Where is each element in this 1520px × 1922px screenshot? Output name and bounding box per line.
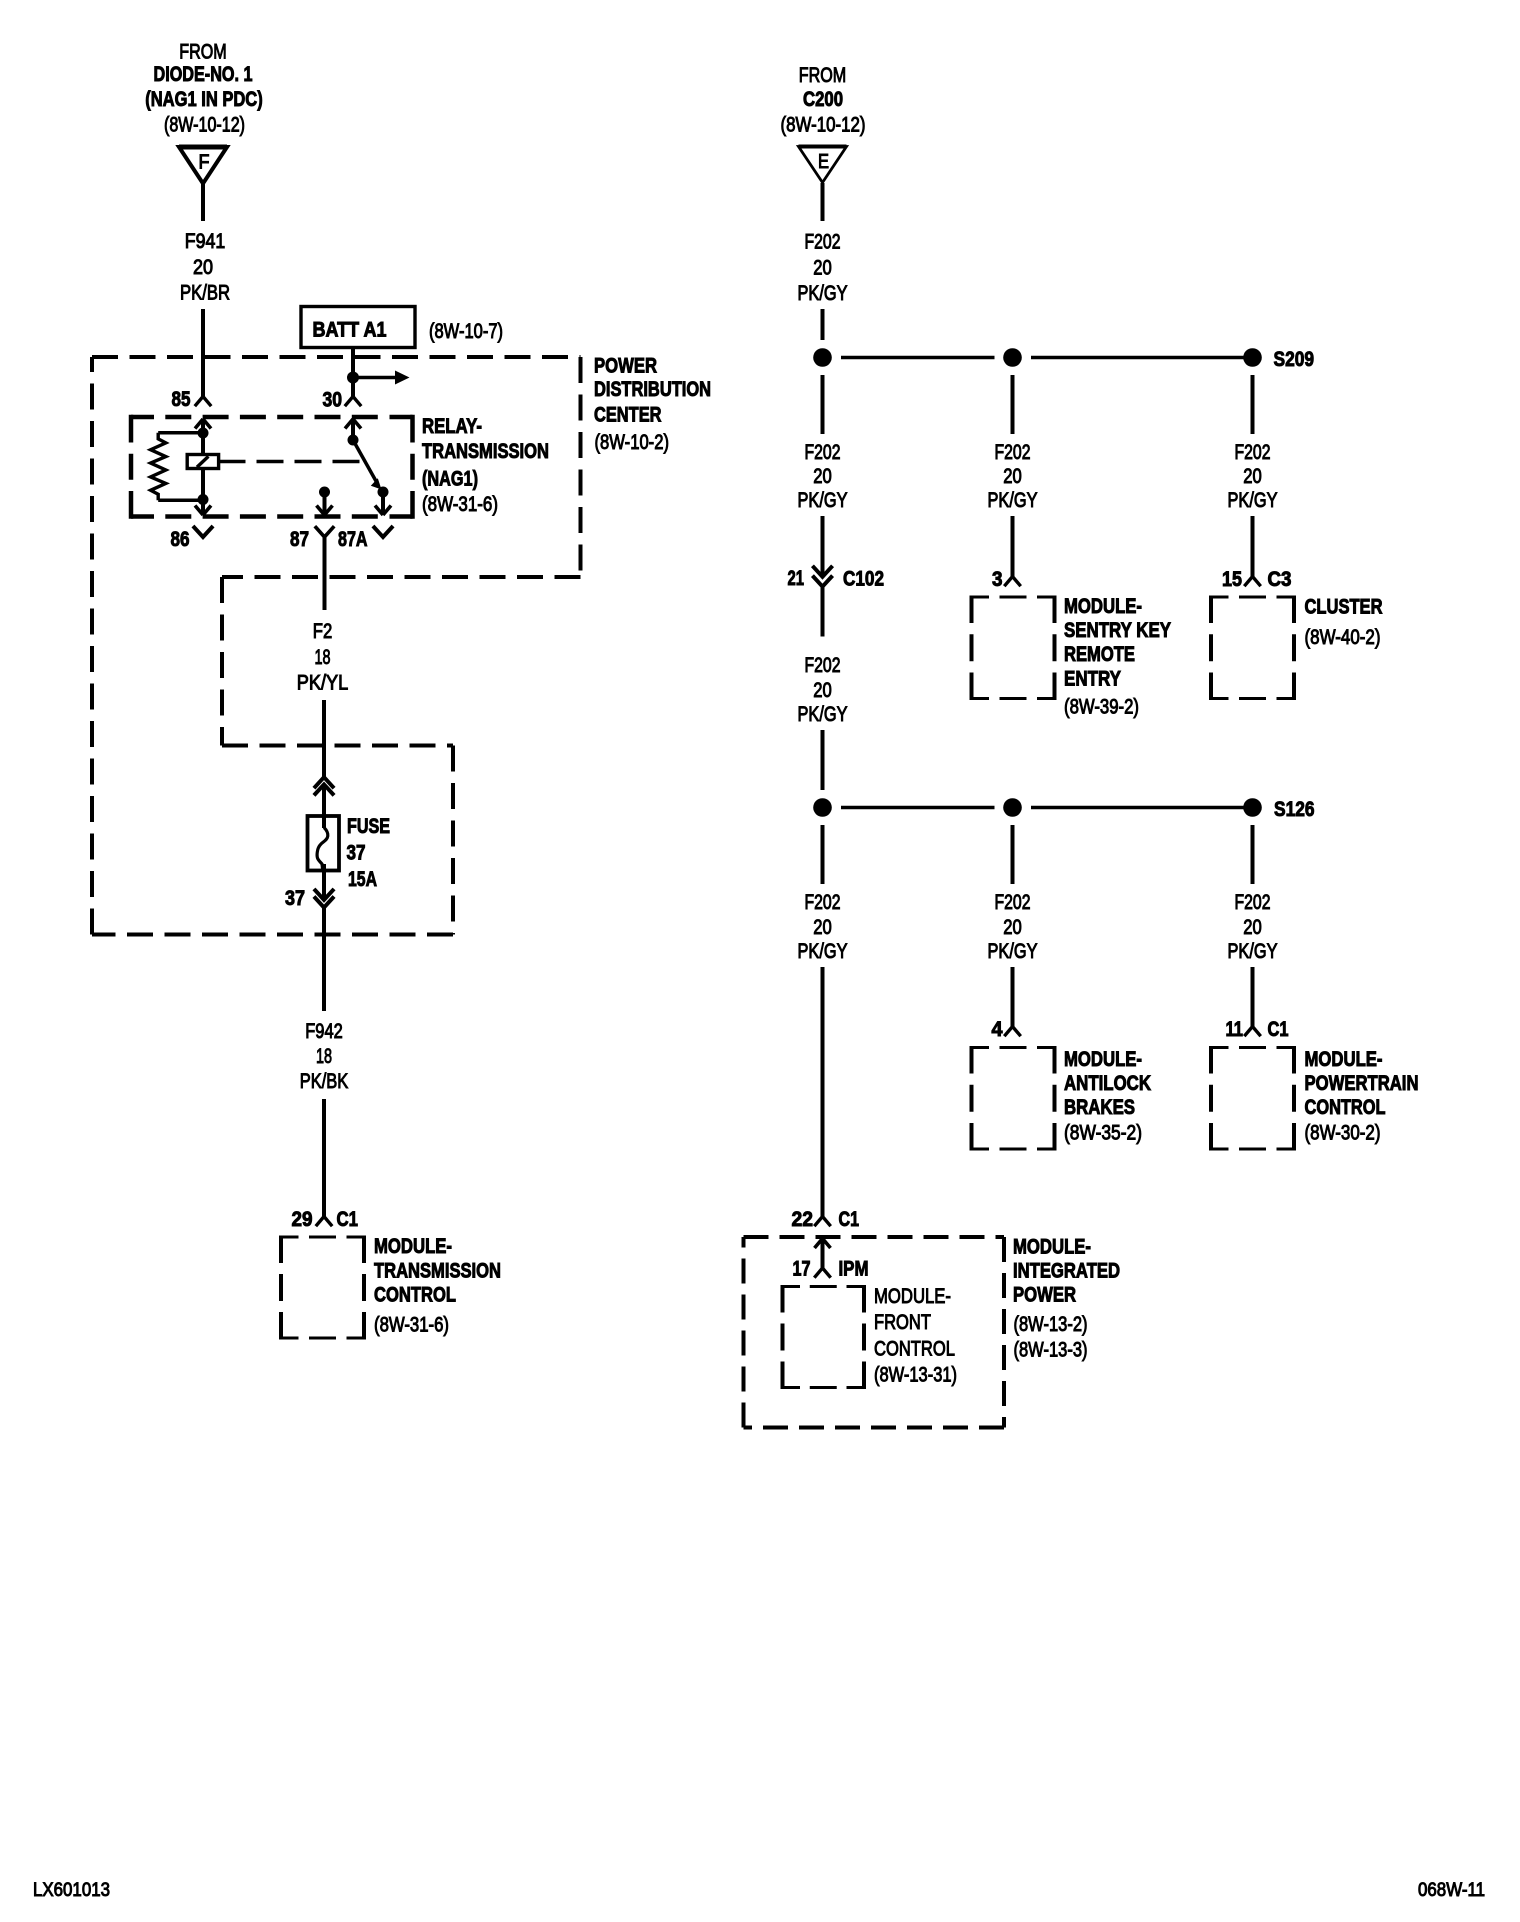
svg-text:22: 22 [792,1208,814,1231]
svg-text:20: 20 [813,257,832,280]
svg-text:CONTROL: CONTROL [874,1337,955,1360]
svg-text:(8W-13-3): (8W-13-3) [1014,1339,1088,1362]
svg-text:CONTROL: CONTROL [374,1284,456,1307]
pin number 30 [323,389,343,412]
relay common terminal arrow (pin 30 inside) [345,419,361,440]
svg-text:ENTRY: ENTRY [1064,668,1121,691]
pin number 11 [1226,1018,1244,1041]
svg-text:F202: F202 [805,891,841,914]
pin number 86 [171,528,190,551]
svg-text:MODULE-: MODULE- [1064,1048,1142,1071]
svg-text:068W-11: 068W-11 [1418,1880,1485,1901]
svg-text:87A: 87A [338,528,368,551]
svg-text:85: 85 [172,388,191,411]
svg-text:F2: F2 [313,620,333,643]
wire F2 from relay pin 87 down [322,537,327,778]
svg-text:CENTER: CENTER [594,404,662,427]
svg-text:MODULE-: MODULE- [1013,1236,1091,1259]
svg-text:FUSE: FUSE [347,815,390,838]
relay coil top junction dot [198,428,209,439]
IPM internal feed arrow [815,1239,831,1269]
connector name C102 [843,568,884,591]
relay coil bottom junction dot [198,494,209,505]
wire label F202 20 PK/GY (C102 to S126) [798,654,848,726]
svg-text:RELAY-: RELAY- [422,415,482,438]
svg-text:PK/GY: PK/GY [1228,940,1278,963]
svg-text:15A: 15A [348,868,377,891]
svg-text:REMOTE: REMOTE [1064,643,1135,666]
label: MODULE-INTEGRATED POWER (8W-13-2) (8W-13-3) [1013,1236,1120,1362]
svg-text:MODULE-: MODULE- [874,1285,951,1308]
sheet number LX601013 [33,1880,110,1901]
wire F202 from S126 to antilock brakes module [1011,825,1015,1027]
svg-text:(8W-13-2): (8W-13-2) [1014,1313,1088,1336]
in-PDC connector double chevron (into fuse block) [315,777,332,794]
module box: MODULE-FRONT CONTROL [783,1285,865,1389]
splice S209 bus wire [841,356,1244,360]
svg-text:F202: F202 [1235,441,1271,464]
svg-text:POWER: POWER [1013,1284,1076,1307]
svg-text:C3: C3 [1268,568,1292,591]
svg-text:20: 20 [813,465,832,488]
svg-text:17: 17 [793,1258,811,1281]
splice dot S126-1 [813,798,832,817]
svg-text:DISTRIBUTION: DISTRIBUTION [594,378,711,401]
svg-text:CONTROL: CONTROL [1305,1096,1386,1119]
svg-text:C102: C102 [843,568,884,591]
svg-text:S126: S126 [1274,798,1315,821]
relay contact 87 dot [319,487,330,498]
node label: FROM DIODE-NO. 1 (NAG1 IN PDC) (8W-10-12) [145,41,263,137]
relay terminal arrow (pin 87 inside) [317,492,333,515]
connector fork pin 4 (antilock brakes) [1004,1027,1020,1037]
off-page connector triangle F (from diode no. 1) [179,147,227,184]
svg-text:37: 37 [285,887,305,910]
svg-text:TRANSMISSION: TRANSMISSION [374,1260,501,1283]
pin 87A connector chevron [374,528,391,538]
svg-text:(8W-39-2): (8W-39-2) [1064,696,1139,719]
sheet number 068W-11 [1418,1880,1485,1901]
connector C102 double chevron pin 21 [814,567,831,586]
connector fork pin 22 C1 (IPM) [814,1217,830,1227]
svg-text:(8W-30-2): (8W-30-2) [1305,1122,1381,1145]
relay coil terminal arrow (pin 85 inside) [195,419,211,433]
pin number 4 [992,1018,1003,1041]
svg-text:IPM: IPM [839,1258,869,1281]
connector name C1 (IPM) [839,1208,860,1231]
connector fork pin 29 C1 [316,1217,332,1227]
svg-text:29: 29 [292,1208,313,1231]
module box: MODULE-TRANSMISSION CONTROL [281,1236,364,1340]
pin 37 connector double chevron (out of fuse block) [315,890,332,907]
wire from BATT A1 box to relay pin 30 [351,348,355,397]
relay suppression resistor [151,433,203,501]
connector fork pin 17 IPM (front control module) [814,1268,830,1278]
svg-text:PK/GY: PK/GY [798,489,848,512]
label: CLUSTER (8W-40-2) [1305,596,1383,650]
relay armature linkage (dashed) [219,460,364,464]
wire F202 from S209 to sentry key module [1011,375,1015,577]
splice dot S209-1 [813,348,832,367]
svg-text:MODULE-: MODULE- [1064,595,1142,618]
relay switch blade to 87A [353,440,382,490]
fuse 37 15A [308,785,340,900]
svg-text:18: 18 [316,1045,332,1068]
svg-text:(8W-31-6): (8W-31-6) [422,493,498,516]
svg-text:PK/BR: PK/BR [180,282,230,305]
wire label F942 18 PK/BK [300,1020,349,1093]
svg-text:F202: F202 [805,654,841,677]
wire F941 from triangle F to relay pin 85 [201,184,205,397]
module box: CLUSTER [1211,596,1294,701]
svg-text:PK/BK: PK/BK [300,1070,349,1093]
svg-text:F202: F202 [1235,891,1271,914]
svg-text:3: 3 [992,568,1003,591]
svg-text:PK/GY: PK/GY [798,703,848,726]
svg-text:86: 86 [171,528,190,551]
svg-text:(8W-10-12): (8W-10-12) [164,114,245,137]
pin number 15 [1222,568,1242,591]
label: MODULE-POWERTRAIN CONTROL (8W-30-2) [1305,1048,1419,1145]
svg-text:F941: F941 [185,230,226,253]
label: MODULE-ANTILOCK BRAKES (8W-35-2) [1064,1048,1151,1145]
connector name C1 (powertrain) [1268,1018,1289,1041]
pin number 87A [338,528,368,551]
wire F202 from S126 to powertrain control module [1251,825,1255,1027]
pin number 87 [290,528,309,551]
svg-text:20: 20 [1243,916,1262,939]
svg-text:PK/GY: PK/GY [798,940,848,963]
junction dot on BATT A1 feed with branch arrow [347,371,410,385]
pin number 22 [792,1208,814,1231]
connector name IPM [839,1258,869,1281]
svg-text:15: 15 [1222,568,1242,591]
relay coil (rect with slash) [187,433,218,500]
svg-text:BRAKES: BRAKES [1064,1096,1135,1119]
wire F202 from S126 to integrated power module [821,825,825,1217]
PDC boundary: POWER DISTRIBUTION CENTER dashed outline [92,357,581,935]
svg-text:21: 21 [788,567,805,590]
svg-text:F942: F942 [305,1020,343,1043]
svg-text:PK/GY: PK/GY [798,282,848,305]
wire label F202 20 PK/GY (S209 to C102) [798,441,848,512]
svg-text:87: 87 [290,528,309,551]
wire label F202 20 PK/GY (to antilock brakes) [988,891,1038,963]
svg-text:20: 20 [1003,916,1022,939]
svg-text:CLUSTER: CLUSTER [1305,596,1383,619]
svg-text:(8W-31-6): (8W-31-6) [374,1314,449,1337]
svg-text:20: 20 [813,916,832,939]
svg-text:PK/GY: PK/GY [988,489,1038,512]
svg-text:20: 20 [193,256,213,279]
svg-text:20: 20 [1003,465,1022,488]
module box: MODULE-INTEGRATED POWER [744,1237,1005,1428]
wire label F2 18 PK/YL [297,620,349,695]
svg-text:20: 20 [1243,465,1262,488]
svg-text:FRONT: FRONT [874,1311,931,1334]
svg-text:DIODE-NO. 1: DIODE-NO. 1 [154,63,253,86]
wire F202 from triangle E to splice S209 [821,183,825,340]
relay K1 RELAY-TRANSMISSION (NAG1) dashed outline [131,415,413,519]
module box: MODULE-ANTILOCK BRAKES [972,1046,1055,1151]
svg-text:LX601013: LX601013 [33,1880,110,1901]
splice dot S126-3 [1243,798,1262,817]
wire F202 from S209 to C102 [821,375,825,578]
pin 86 connector chevron [194,528,211,538]
splice S126 bus wire [841,806,1244,810]
wire label F202 20 PK/GY (to cluster) [1228,441,1278,512]
off-page connector triangle E (from C200) [799,147,847,183]
svg-text:POWER: POWER [594,355,657,378]
svg-text:F202: F202 [805,441,841,464]
wire label F202 20 PK/GY (to powertrain control) [1228,891,1278,963]
svg-text:(8W-10-2): (8W-10-2) [595,431,670,454]
wire label F202 20 PK/GY (to IPM) [798,891,848,963]
wire label F941 20 PK/BR [180,230,230,305]
relay pin 30 connector fork [345,397,361,407]
wire label F202 20 PK/GY (to sentry key) [988,441,1038,512]
svg-text:F202: F202 [805,231,841,254]
node label: FROM C200 (8W-10-12) [781,64,866,137]
module box: MODULE-SENTRY KEY REMOTE ENTRY [972,596,1055,701]
svg-text:F202: F202 [995,891,1031,914]
svg-text:C200: C200 [803,88,843,111]
svg-text:(8W-13-31): (8W-13-31) [874,1364,957,1387]
splice dot S126-2 [1003,798,1022,817]
svg-text:E: E [818,151,829,173]
svg-text:(NAG1 IN PDC): (NAG1 IN PDC) [145,88,263,111]
connector fork pin 3 (sentry key module) [1004,577,1020,587]
pin number 17 [793,1258,811,1281]
label: POWER DISTRIBUTION CENTER (8W-10-2) [594,355,711,455]
svg-text:MODULE-: MODULE- [1305,1048,1383,1071]
splice name S209 [1274,348,1315,371]
svg-text:30: 30 [323,389,343,412]
svg-text:SENTRY KEY: SENTRY KEY [1064,619,1171,642]
wire F942 from fuse 37 to transmission control module [322,908,326,1217]
pin number 85 [172,388,191,411]
module box: MODULE-POWERTRAIN CONTROL [1211,1046,1294,1151]
label: MODULE-FRONT CONTROL (8W-13-31) [874,1285,957,1387]
svg-text:PK/GY: PK/GY [1228,489,1278,512]
svg-text:18: 18 [315,646,331,669]
svg-text:20: 20 [813,679,832,702]
svg-text:F202: F202 [995,441,1031,464]
svg-text:C1: C1 [337,1208,359,1231]
svg-text:ANTILOCK: ANTILOCK [1064,1072,1151,1095]
relay coil terminal arrow (pin 86 inside) [195,500,211,516]
relay pin 85 connector fork [195,397,211,407]
pin number 3 [992,568,1003,591]
label: RELAY-TRANSMISSION (NAG1) (8W-31-6) [422,415,549,516]
connector fork pin 11 C1 (powertrain control) [1244,1027,1260,1037]
wire F202 from S209 to cluster [1251,375,1255,577]
label (8W-10-7) [429,320,503,343]
svg-text:PK/GY: PK/GY [988,940,1038,963]
svg-text:(8W-40-2): (8W-40-2) [1305,626,1381,649]
svg-text:PK/YL: PK/YL [297,672,349,695]
svg-text:INTEGRATED: INTEGRATED [1013,1260,1120,1283]
svg-text:FROM: FROM [799,64,847,87]
relay switch pivot dot [348,435,359,446]
connector name C3 [1268,568,1292,591]
svg-text:FROM: FROM [179,41,227,64]
svg-text:TRANSMISSION: TRANSMISSION [422,440,549,463]
splice dot S209-2 [1003,348,1022,367]
connector name C1 [337,1208,359,1231]
svg-text:(NAG1): (NAG1) [422,468,478,491]
svg-text:F: F [199,152,210,174]
connector fork pin 15 C3 (cluster) [1244,577,1260,587]
svg-text:BATT A1: BATT A1 [313,319,387,342]
label: MODULE-TRANSMISSION CONTROL (8W-31-6) [374,1235,501,1337]
svg-text:POWERTRAIN: POWERTRAIN [1305,1072,1419,1095]
svg-text:(8W-35-2): (8W-35-2) [1064,1122,1142,1145]
svg-text:11: 11 [1226,1018,1244,1041]
relay contact 87A dot [378,487,389,498]
pin number 37 [285,887,305,910]
wire label F202 20 PK/GY (feed) [798,231,848,306]
label: MODULE-SENTRY KEY REMOTE ENTRY (8W-39-2) [1064,595,1171,719]
svg-text:C1: C1 [1268,1018,1289,1041]
pin 87 connector Y fork [316,528,333,538]
svg-text:S209: S209 [1274,348,1315,371]
svg-text:MODULE-: MODULE- [374,1235,452,1258]
relay terminal arrow (pin 87A inside) [375,492,391,515]
svg-text:C1: C1 [839,1208,860,1231]
splice name S126 [1274,798,1315,821]
svg-text:4: 4 [992,1018,1003,1041]
splice dot S209-3 [1243,348,1262,367]
feed box BATT A1 [301,307,415,348]
svg-text:(8W-10-12): (8W-10-12) [781,114,866,137]
pin number 21 [788,567,805,590]
fuse label FUSE 37 15A [347,815,391,891]
svg-text:37: 37 [347,842,366,865]
svg-text:(8W-10-7): (8W-10-7) [429,320,503,343]
wire F202 from C102 to S126 [821,587,825,790]
pin number 29 [292,1208,313,1231]
